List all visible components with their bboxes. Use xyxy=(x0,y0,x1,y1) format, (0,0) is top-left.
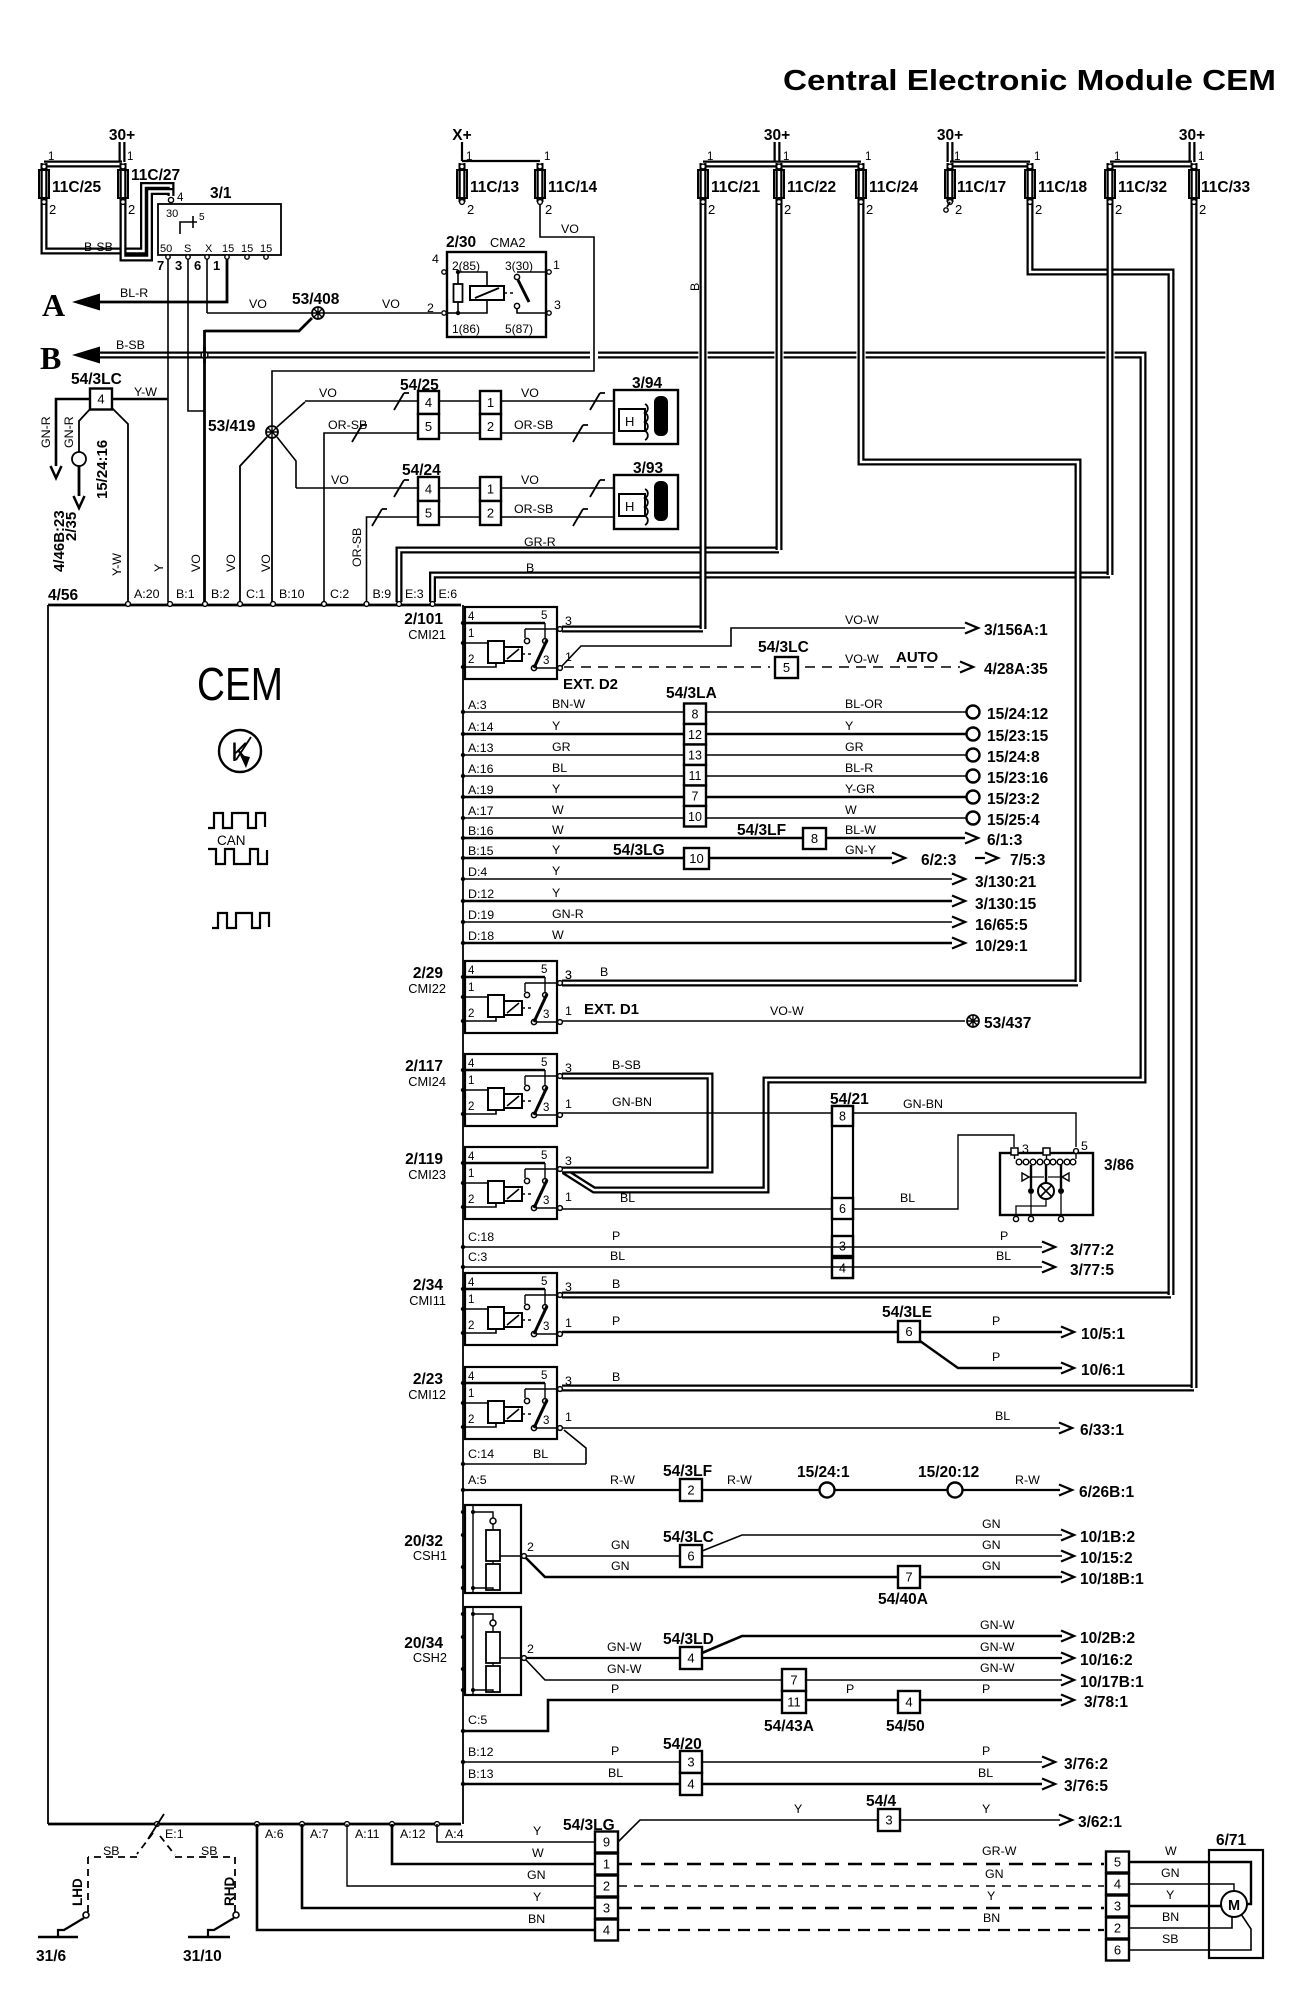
wire P 2/34 to 10/5:1 xyxy=(562,1331,1062,1333)
svg-text:11C/27: 11C/27 xyxy=(131,167,180,184)
svg-text:31/10: 31/10 xyxy=(183,1948,222,1965)
svg-text:A:5: A:5 xyxy=(468,1473,487,1487)
wire B from 2/101 pin3 xyxy=(562,626,703,633)
svg-text:Y: Y xyxy=(845,719,853,733)
svg-text:D:19: D:19 xyxy=(468,908,494,922)
svg-text:3: 3 xyxy=(543,1321,549,1333)
switch slash at E:1 xyxy=(148,1814,164,1839)
svg-text:54/3LC: 54/3LC xyxy=(758,639,809,656)
svg-text:3: 3 xyxy=(565,1280,572,1294)
svg-text:VO: VO xyxy=(259,554,273,572)
wire GN-W 20/34 to 54/3LD xyxy=(527,1657,680,1659)
svg-text:11C/18: 11C/18 xyxy=(1038,179,1088,196)
svg-text:VO: VO xyxy=(331,473,349,487)
svg-text:3/156A:1: 3/156A:1 xyxy=(984,622,1048,639)
svg-text:5: 5 xyxy=(199,212,205,223)
svg-text:W: W xyxy=(552,928,564,942)
svg-text:D:18: D:18 xyxy=(468,929,494,943)
svg-text:C:18: C:18 xyxy=(468,1230,494,1244)
svg-text:P: P xyxy=(982,1682,990,1696)
svg-text:P: P xyxy=(846,1682,854,1696)
svg-text:VO: VO xyxy=(319,386,337,400)
svg-text:1: 1 xyxy=(468,982,474,994)
svg-text:3: 3 xyxy=(565,1374,572,1388)
svg-text:GN-BN: GN-BN xyxy=(903,1097,943,1111)
svg-text:Y-W: Y-W xyxy=(134,385,157,399)
node A:11 xyxy=(345,1822,350,1827)
svg-text:15/23:15: 15/23:15 xyxy=(987,728,1049,745)
svg-text:11C/33: 11C/33 xyxy=(1201,179,1251,196)
svg-text:E:1: E:1 xyxy=(165,1827,184,1841)
wire GN-R to 15/24:16 xyxy=(79,408,91,452)
svg-text:2: 2 xyxy=(687,1483,694,1498)
ignition lock symbol xyxy=(180,222,197,234)
svg-text:D:4: D:4 xyxy=(468,865,487,879)
svg-text:A:13: A:13 xyxy=(468,741,494,755)
svg-text:CMI24: CMI24 xyxy=(408,1074,446,1089)
svg-text:E:6: E:6 xyxy=(439,587,458,601)
svg-text:H: H xyxy=(625,414,634,429)
svg-text:2: 2 xyxy=(545,202,552,217)
svg-text:P: P xyxy=(611,1682,619,1696)
horn 3/93 xyxy=(614,475,678,529)
svg-text:4: 4 xyxy=(687,1777,694,1792)
svg-text:A:14: A:14 xyxy=(468,720,494,734)
svg-text:B:2: B:2 xyxy=(211,587,230,601)
svg-text:1: 1 xyxy=(553,258,560,272)
svg-text:8: 8 xyxy=(839,1110,846,1124)
svg-text:P: P xyxy=(612,1314,620,1328)
wire 30+ rail group4 xyxy=(1110,161,1192,168)
svg-text:6/71: 6/71 xyxy=(1216,1832,1247,1849)
symbol K immobilizer xyxy=(219,730,261,772)
svg-text:54/3LG: 54/3LG xyxy=(613,842,665,859)
svg-text:W: W xyxy=(552,823,564,837)
wire CEM feed vertical xyxy=(462,605,464,1824)
svg-text:7: 7 xyxy=(905,1570,912,1585)
svg-text:EXT. D2: EXT. D2 xyxy=(563,676,618,693)
svg-text:A:20: A:20 xyxy=(134,587,160,601)
wire D:12 Y to 3/130:15 xyxy=(463,900,952,903)
svg-text:5: 5 xyxy=(541,610,547,622)
svg-text:GR-W: GR-W xyxy=(982,1844,1017,1858)
connector 54/20 pins 3 4 xyxy=(680,1751,702,1773)
wire Y-W to A:20 xyxy=(112,408,128,602)
fuse 11C/32 xyxy=(1107,163,1114,202)
wire B-SB link 2/117 to 2/119 xyxy=(562,1076,710,1170)
svg-text:OR-SB: OR-SB xyxy=(514,418,553,432)
svg-text:W: W xyxy=(532,1846,544,1860)
svg-text:2: 2 xyxy=(468,1320,474,1332)
svg-text:3/94: 3/94 xyxy=(632,375,663,392)
svg-text:M: M xyxy=(1228,1898,1240,1914)
wire A:19 Y to 15/23:2 xyxy=(463,796,966,799)
wire GR-R from 11C/22 to E:3 xyxy=(399,550,779,602)
wire C:18 P to 3/77:2 xyxy=(463,1246,1042,1248)
svg-text:4: 4 xyxy=(425,395,432,410)
wire P to 10/6:1 xyxy=(920,1341,1062,1368)
svg-text:3: 3 xyxy=(565,1154,572,1168)
svg-text:B: B xyxy=(612,1370,620,1384)
wire B:12 P to 3/76:2 xyxy=(463,1761,1042,1763)
svg-text:4/56: 4/56 xyxy=(48,587,79,604)
svg-text:1: 1 xyxy=(487,482,494,497)
relay 2/34 CMI11 xyxy=(465,1273,557,1345)
svg-text:Central Electronic Module CEM: Central Electronic Module CEM xyxy=(783,65,1276,97)
svg-text:BL: BL xyxy=(552,761,567,775)
wire C:3 BL to 3/77:5 xyxy=(463,1266,1042,1268)
svg-text:3/86: 3/86 xyxy=(1104,1157,1135,1174)
svg-text:B: B xyxy=(688,283,702,291)
svg-text:S: S xyxy=(184,243,191,255)
fuse 11C/18 xyxy=(1027,163,1034,202)
svg-text:AUTO: AUTO xyxy=(896,649,939,666)
svg-text:8: 8 xyxy=(811,831,818,846)
node A:12 xyxy=(390,1822,395,1827)
svg-text:A:16: A:16 xyxy=(468,762,494,776)
node A:20 xyxy=(126,602,131,607)
svg-text:B: B xyxy=(612,1277,620,1291)
svg-text:OR-SB: OR-SB xyxy=(514,502,553,516)
svg-text:6/26B:1: 6/26B:1 xyxy=(1079,1484,1135,1501)
wire SB into motor xyxy=(1129,1914,1251,1950)
wire VO 54/25 to 3/94 xyxy=(439,400,480,402)
node C:1 xyxy=(238,602,243,607)
svg-text:1: 1 xyxy=(783,151,789,163)
svg-text:2: 2 xyxy=(784,202,791,217)
svg-text:54/3LE: 54/3LE xyxy=(882,1304,932,1321)
svg-text:30+: 30+ xyxy=(764,127,790,144)
fuse 11C/21 xyxy=(700,163,707,202)
svg-text:A:12: A:12 xyxy=(400,1827,426,1841)
fuse 11C/25 xyxy=(41,163,48,202)
svg-text:A:19: A:19 xyxy=(468,783,494,797)
wire X+ rail xyxy=(462,160,540,162)
svg-text:R-W: R-W xyxy=(610,1473,635,1487)
svg-text:BN: BN xyxy=(983,1911,1000,1925)
wire OR-SB 54/25 to C:2 xyxy=(324,433,418,602)
svg-text:BL-W: BL-W xyxy=(845,823,876,837)
svg-text:2: 2 xyxy=(128,202,135,217)
wire VO 54/24 to 3/93 xyxy=(439,487,480,489)
wire from 11C/27 to 3/1 pin 30 xyxy=(123,192,171,259)
wire B from 2/23 pin3 xyxy=(562,1385,1194,1392)
svg-text:B:13: B:13 xyxy=(468,1767,494,1781)
svg-text:GN-R: GN-R xyxy=(552,907,584,921)
ground 31/6 xyxy=(38,1936,78,1939)
svg-text:11C/32: 11C/32 xyxy=(1118,179,1167,196)
svg-text:6/2:3: 6/2:3 xyxy=(921,852,957,869)
svg-text:GN: GN xyxy=(611,1538,630,1552)
wire 30+ drop group2 xyxy=(774,142,781,162)
svg-text:C:3: C:3 xyxy=(468,1250,487,1264)
wire fuse 11C/18 down to 2/34 xyxy=(1030,202,1171,1295)
wire GN 20/32 to 54/3LC xyxy=(527,1555,680,1557)
svg-text:6/1:3: 6/1:3 xyxy=(987,832,1023,849)
svg-text:1: 1 xyxy=(954,151,960,163)
svg-text:3/78:1: 3/78:1 xyxy=(1084,1694,1128,1711)
svg-text:Y: Y xyxy=(1166,1888,1174,1902)
svg-text:BL: BL xyxy=(996,1249,1011,1263)
svg-text:CMA2: CMA2 xyxy=(490,235,526,250)
svg-text:GR-R: GR-R xyxy=(524,535,556,549)
svg-text:1: 1 xyxy=(544,151,550,163)
svg-text:Y: Y xyxy=(794,1802,802,1816)
svg-text:6: 6 xyxy=(1114,1943,1121,1958)
svg-text:Y: Y xyxy=(552,843,560,857)
wire 30+ drop group3 xyxy=(947,142,954,162)
svg-text:1: 1 xyxy=(487,395,494,410)
svg-text:3: 3 xyxy=(554,298,561,312)
wire GR-W dashed to 6/71:5 xyxy=(618,1863,1104,1866)
svg-text:B:12: B:12 xyxy=(468,1745,494,1759)
svg-text:3/77:5: 3/77:5 xyxy=(1070,1262,1114,1279)
svg-text:2: 2 xyxy=(527,1642,534,1656)
svg-text:15/24:8: 15/24:8 xyxy=(987,749,1040,766)
svg-text:BL-R: BL-R xyxy=(845,761,873,775)
svg-text:3: 3 xyxy=(885,1813,892,1828)
svg-text:2: 2 xyxy=(468,1008,474,1020)
svg-text:GN-W: GN-W xyxy=(980,1618,1015,1632)
svg-text:50: 50 xyxy=(160,243,172,255)
ignition switch 3/1 xyxy=(158,204,281,255)
svg-text:Y: Y xyxy=(533,1824,541,1838)
wire GN-W to 10/17B:1 via 54/43A xyxy=(526,1660,1062,1680)
svg-text:A:7: A:7 xyxy=(310,1827,329,1841)
wire VO-W dashed to 4/28A:35 xyxy=(564,666,770,668)
svg-text:5: 5 xyxy=(425,506,432,521)
svg-text:11: 11 xyxy=(787,1695,801,1710)
svg-text:1: 1 xyxy=(466,151,472,163)
svg-text:VO-W: VO-W xyxy=(845,652,879,666)
svg-text:H: H xyxy=(625,499,634,514)
node E:6 xyxy=(430,602,435,607)
node B:2 xyxy=(203,602,208,607)
svg-text:15/25:4: 15/25:4 xyxy=(987,812,1040,829)
svg-text:8: 8 xyxy=(692,707,699,721)
svg-text:4: 4 xyxy=(97,392,104,407)
svg-text:2: 2 xyxy=(1114,1921,1121,1936)
svg-text:1: 1 xyxy=(707,151,713,163)
svg-text:2: 2 xyxy=(468,1194,474,1206)
wire 30+ rail left xyxy=(44,161,122,168)
svg-text:BL: BL xyxy=(620,1191,635,1205)
svg-text:GN-W: GN-W xyxy=(980,1640,1015,1654)
svg-text:1(86): 1(86) xyxy=(452,322,480,336)
svg-text:1: 1 xyxy=(468,1388,474,1400)
wire 2/35 xyxy=(78,466,81,496)
CAN wave 1 xyxy=(208,813,265,828)
svg-text:Y-GR: Y-GR xyxy=(845,782,875,796)
svg-text:P: P xyxy=(1000,1229,1008,1243)
svg-text:SB: SB xyxy=(201,1844,218,1858)
svg-text:Y: Y xyxy=(982,1802,990,1816)
svg-text:W: W xyxy=(1165,1844,1177,1858)
wire from 3/1 pin S xyxy=(188,259,205,411)
svg-text:4: 4 xyxy=(425,482,432,497)
svg-text:VO: VO xyxy=(189,554,203,572)
svg-text:15/23:16: 15/23:16 xyxy=(987,770,1049,787)
svg-text:30: 30 xyxy=(166,208,178,220)
svg-text:5: 5 xyxy=(541,1276,547,1288)
svg-text:9: 9 xyxy=(603,1835,610,1850)
svg-text:CSH2: CSH2 xyxy=(413,1650,447,1665)
fuse 11C/17 xyxy=(947,163,954,202)
svg-text:30+: 30+ xyxy=(937,127,963,144)
svg-text:B:15: B:15 xyxy=(468,844,494,858)
svg-text:12: 12 xyxy=(688,728,702,742)
svg-text:15/24:12: 15/24:12 xyxy=(987,706,1048,723)
svg-text:2: 2 xyxy=(1035,202,1042,217)
wire GN-W to 10/2B:2 xyxy=(702,1636,1062,1653)
node B:9 xyxy=(364,602,369,607)
wire A:5 R-W to 6/26B:1 xyxy=(463,1489,1060,1491)
svg-text:4: 4 xyxy=(839,1262,846,1276)
svg-text:GN-Y: GN-Y xyxy=(845,843,876,857)
wire GN-W to 10/16:2 xyxy=(702,1657,1062,1659)
heater unit 20/34 CSH2 xyxy=(465,1607,521,1695)
wire SB dashed to LHD xyxy=(137,1833,153,1854)
wire D:19 GN-R to 16/65:5 xyxy=(463,921,952,923)
wire Y-W from 3/1 to 54/3LC xyxy=(112,398,168,401)
svg-text:10/15:2: 10/15:2 xyxy=(1080,1550,1133,1567)
wire OR-SB xyxy=(439,516,480,518)
svg-text:3: 3 xyxy=(543,655,549,667)
svg-text:X+: X+ xyxy=(452,127,471,144)
wire OR-SB 54/24 to B:9 xyxy=(367,517,419,602)
svg-text:2: 2 xyxy=(468,654,474,666)
svg-text:53/408: 53/408 xyxy=(292,291,340,308)
svg-text:BL: BL xyxy=(610,1249,625,1263)
svg-text:3: 3 xyxy=(543,1102,549,1114)
svg-text:4: 4 xyxy=(177,192,184,204)
wire X+ drop xyxy=(461,142,463,161)
svg-text:3: 3 xyxy=(565,1061,572,1075)
svg-text:1: 1 xyxy=(468,1168,474,1180)
svg-text:1: 1 xyxy=(865,151,871,163)
svg-text:GN-W: GN-W xyxy=(607,1662,642,1676)
relay 2/30 coil resistor xyxy=(457,272,459,313)
CAN wave 2 xyxy=(208,849,267,864)
svg-text:10/1B:2: 10/1B:2 xyxy=(1080,1529,1135,1546)
wire stub 11C/17 xyxy=(947,202,950,207)
svg-text:1: 1 xyxy=(565,1004,572,1018)
svg-text:10/18B:1: 10/18B:1 xyxy=(1080,1571,1144,1588)
3/86 left leg xyxy=(1030,1165,1032,1188)
svg-text:CMI22: CMI22 xyxy=(408,981,446,996)
svg-text:11C/25: 11C/25 xyxy=(52,179,102,196)
svg-text:BL: BL xyxy=(608,1766,623,1780)
node A:4 xyxy=(435,1822,440,1827)
svg-text:5: 5 xyxy=(541,1150,547,1162)
svg-text:2: 2 xyxy=(468,1414,474,1426)
svg-text:B: B xyxy=(526,561,534,575)
node 53/408 xyxy=(312,307,324,319)
svg-text:2: 2 xyxy=(1199,202,1206,217)
svg-text:CMI12: CMI12 xyxy=(408,1387,446,1402)
wire GN dashed to 6/71:4 xyxy=(618,1885,1104,1887)
svg-text:VO: VO xyxy=(561,222,579,236)
wire fuse 11C/24 down to 2/29 xyxy=(861,202,1078,982)
svg-text:3/1: 3/1 xyxy=(210,185,232,202)
svg-text:7: 7 xyxy=(692,789,699,803)
svg-text:C:2: C:2 xyxy=(330,587,349,601)
svg-text:4: 4 xyxy=(1114,1877,1121,1892)
svg-text:53/419: 53/419 xyxy=(208,418,256,435)
wire 30+ drop left xyxy=(119,142,126,162)
svg-text:6: 6 xyxy=(194,258,201,273)
svg-text:6/33:1: 6/33:1 xyxy=(1080,1422,1124,1439)
svg-text:10/29:1: 10/29:1 xyxy=(975,938,1028,955)
wire VO from 53/408 loop xyxy=(205,318,313,331)
svg-text:C:5: C:5 xyxy=(468,1713,487,1727)
svg-text:15/24:16: 15/24:16 xyxy=(94,440,111,499)
svg-text:GR: GR xyxy=(552,740,571,754)
svg-text:R-W: R-W xyxy=(727,1473,752,1487)
svg-text:B:9: B:9 xyxy=(373,587,392,601)
svg-text:30+: 30+ xyxy=(109,127,135,144)
svg-text:GN-W: GN-W xyxy=(607,1640,642,1654)
svg-text:30+: 30+ xyxy=(1179,127,1205,144)
wire VO from 11C/14 to 53/419 xyxy=(272,202,594,426)
svg-text:3/130:21: 3/130:21 xyxy=(975,874,1037,891)
svg-text:SB: SB xyxy=(103,1844,120,1858)
svg-text:P: P xyxy=(992,1314,1000,1328)
svg-text:P: P xyxy=(611,1744,619,1758)
svg-text:2: 2 xyxy=(955,202,962,217)
wire W into motor xyxy=(1129,1862,1251,1904)
wire Y from 3/1 pin50 to B:1 xyxy=(167,259,169,602)
svg-text:7/5:3: 7/5:3 xyxy=(1010,852,1046,869)
heater unit 20/32 CSH1 xyxy=(465,1505,521,1593)
svg-text:6: 6 xyxy=(905,1324,912,1339)
wire GN to 10/18B:1 via 54/40A xyxy=(526,1558,1062,1577)
svg-text:4: 4 xyxy=(603,1923,610,1938)
wire 30+ drop group4 xyxy=(1189,142,1196,162)
svg-text:C:1: C:1 xyxy=(246,587,265,601)
svg-text:VO-W: VO-W xyxy=(770,1004,804,1018)
wire 30+ rail group3 xyxy=(950,161,1030,168)
svg-text:10: 10 xyxy=(688,810,702,824)
svg-text:4: 4 xyxy=(432,252,439,266)
svg-text:4: 4 xyxy=(468,1371,475,1383)
svg-text:15: 15 xyxy=(260,243,272,255)
svg-text:4/28A:35: 4/28A:35 xyxy=(984,661,1048,678)
svg-text:3: 3 xyxy=(603,1901,610,1916)
svg-text:CSH1: CSH1 xyxy=(413,1548,447,1563)
node C:2 xyxy=(322,602,327,607)
svg-text:BL: BL xyxy=(533,1447,548,1461)
wire BL 2/119 to 54/21 and 3/86 xyxy=(562,1208,832,1210)
svg-text:W: W xyxy=(845,803,857,817)
svg-text:15/23:2: 15/23:2 xyxy=(987,791,1040,808)
relay 2/119 CMI23 xyxy=(465,1147,557,1219)
wire D:18 W to 10/29:1 xyxy=(463,942,952,945)
wire GN to 10/15:2 xyxy=(702,1555,1062,1557)
svg-text:3: 3 xyxy=(543,1009,549,1021)
relay 2/30 coil xyxy=(458,272,487,313)
svg-text:1: 1 xyxy=(468,1075,474,1087)
wire GN-R to 4/46B:23 xyxy=(56,399,91,466)
svg-text:54/3LF: 54/3LF xyxy=(663,1463,712,1480)
svg-text:1: 1 xyxy=(1034,151,1040,163)
svg-text:BL-OR: BL-OR xyxy=(845,697,883,711)
fuse 11C/27 xyxy=(120,163,127,202)
wire BL 2/23 to 6/33:1 xyxy=(562,1427,1060,1429)
fuse 11C/13 xyxy=(459,163,466,202)
wire Y into motor xyxy=(1129,1905,1221,1907)
svg-text:B-SB: B-SB xyxy=(116,338,145,352)
